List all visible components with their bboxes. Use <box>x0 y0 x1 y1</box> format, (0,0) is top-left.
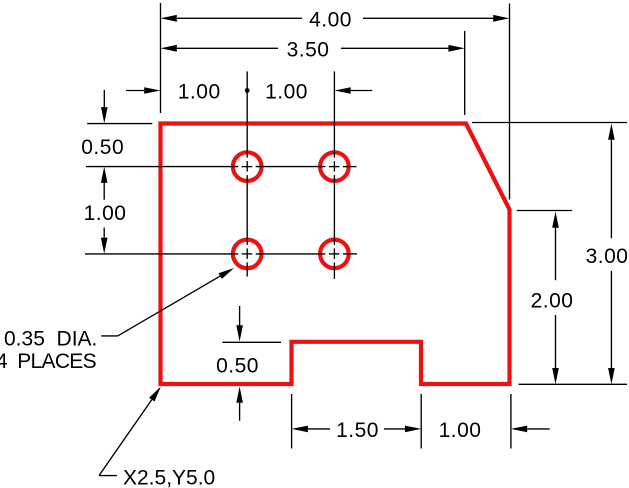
dim 0.50 notch lower arrow <box>236 387 243 403</box>
hole bottom-right <box>320 240 349 269</box>
svg-text:1.00: 1.00 <box>84 202 127 225</box>
svg-text:0.35 DIA.: 0.35 DIA. <box>4 327 97 350</box>
dim 1.00 left text <box>84 202 127 225</box>
svg-text:3.00: 3.00 <box>586 245 629 268</box>
center line column 2 <box>333 71 335 279</box>
dim 4.00 line <box>177 17 493 19</box>
dim 2.00 upper arrow <box>552 212 559 228</box>
part outline <box>161 124 510 385</box>
hole bottom-left <box>233 240 262 269</box>
svg-text:1.50: 1.50 <box>336 419 379 442</box>
dim 0.50 left lower arrow <box>101 167 108 183</box>
extension line notch 0.50 (y=342.3) <box>222 341 281 343</box>
leader holes arrow <box>219 268 235 279</box>
dim 3.50 arrow right <box>448 45 464 52</box>
hole top-left <box>233 152 262 181</box>
dim 2.00 lower line <box>555 315 557 368</box>
dim 3.00 lower line <box>610 271 612 368</box>
leader corner diagonal line <box>99 400 152 476</box>
extension line 3.00 top (y=122.5) <box>472 122 627 124</box>
dim 1.00 left lower line <box>103 228 105 238</box>
dim 3.50 text <box>287 39 330 62</box>
extension line right (x=509.5) <box>509 4 511 200</box>
svg-text:2.00: 2.00 <box>531 289 574 312</box>
dim 1.50 right line <box>384 428 405 430</box>
extension line notch left (x=291.6) <box>291 394 293 449</box>
dim 2.00 lower arrow <box>552 368 559 384</box>
svg-text:X2.5,Y5.0: X2.5,Y5.0 <box>123 466 215 488</box>
extension line left (x=160.5) <box>160 3 162 113</box>
svg-text:1.00: 1.00 <box>178 80 221 103</box>
dim 1.50 text <box>336 419 379 442</box>
dim 1.00 bottom tail line <box>527 428 550 430</box>
dim 1.00 bottom arrow <box>511 426 527 433</box>
dim 1.00 top-right arrow <box>334 87 350 94</box>
dim 3.00 upper line <box>610 140 612 238</box>
dim 0.50 notch lower line <box>239 403 241 421</box>
dim 0.50 left upper line <box>103 90 105 107</box>
leader holes diagonal line <box>118 276 220 336</box>
svg-text:1.00: 1.00 <box>439 419 482 442</box>
dim 0.50 left text <box>81 136 124 159</box>
dim 1.00 top-right text <box>265 80 308 103</box>
svg-text:4.00: 4.00 <box>309 9 352 32</box>
svg-text:0.50: 0.50 <box>81 136 124 159</box>
dim 1.50 arrow right <box>405 426 421 433</box>
node dot on column 1 <box>245 88 250 93</box>
dim 3.00 text <box>586 245 629 268</box>
dim 0.50 notch upper arrow <box>236 325 243 341</box>
dim 0.50 left upper arrow <box>101 107 108 123</box>
svg-text:1.00: 1.00 <box>265 80 308 103</box>
dim 4.00 arrow right <box>493 15 509 22</box>
hole top-right <box>320 152 349 181</box>
center line row 2 <box>85 253 357 255</box>
dim 0.50 notch text <box>216 354 259 377</box>
dim 1.00 top-left arrow <box>144 87 160 94</box>
extension line part right bottom (x=510.9) <box>510 394 512 449</box>
leader text 4 PLACES <box>0 350 97 373</box>
svg-text:3.50: 3.50 <box>287 39 330 62</box>
dim 1.00 left upper line <box>103 183 105 200</box>
extension line notch right (x=421.2) <box>420 394 422 449</box>
extension line bottom right (y=384.3) <box>519 383 627 385</box>
dim 1.00 top-left text <box>178 80 221 103</box>
dim 1.00 left lower arrow <box>101 238 108 254</box>
dim 2.00 upper line <box>555 228 557 280</box>
center line row 1 <box>86 166 357 168</box>
dim 4.00 text <box>309 9 352 32</box>
dim 1.00 bottom text <box>439 419 482 442</box>
dim 3.50 line <box>177 47 449 49</box>
dim 3.50 arrow left <box>161 45 177 52</box>
leader text 0.35 DIA. <box>4 327 97 350</box>
dim 3.00 lower arrow <box>608 368 615 384</box>
leader corner horizontal line <box>99 475 117 477</box>
dim 1.00 top-left tail line <box>126 90 144 92</box>
extension line top edge left (y=122.3) <box>87 123 152 125</box>
leader corner arrow <box>149 387 161 402</box>
leader holes horizontal line <box>101 335 118 337</box>
dim 1.50 arrow left <box>292 426 308 433</box>
dim 1.50 left line <box>308 428 330 430</box>
dim 3.00 upper arrow <box>608 124 615 140</box>
svg-text:0.50: 0.50 <box>216 354 259 377</box>
dim 4.00 arrow left <box>161 15 177 22</box>
center line column 1 <box>246 71 248 276</box>
leader text X2.5,Y5.0 <box>123 466 215 488</box>
dim 1.00 top-right tail line <box>351 90 373 92</box>
svg-text:4 PLACES: 4 PLACES <box>0 350 97 373</box>
dim 2.00 text <box>531 289 574 312</box>
extension line 3.50 (x=464.7) <box>464 31 466 115</box>
dim 0.50 notch upper line <box>239 306 241 326</box>
extension line 2.00 (y=210.5) <box>517 210 572 212</box>
